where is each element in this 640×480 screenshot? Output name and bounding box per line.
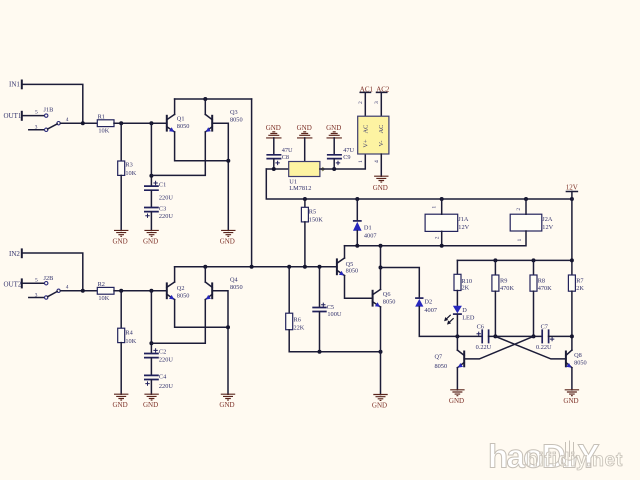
wire Q8 base cross-couple to C6 node bbox=[495, 336, 566, 359]
svg-text:Q6: Q6 bbox=[383, 291, 391, 298]
relay J2A bbox=[510, 208, 553, 242]
junction D1 bottom bbox=[355, 244, 359, 248]
diode D2 bbox=[415, 298, 437, 314]
svg-text:8050: 8050 bbox=[435, 363, 448, 370]
svg-text:C4: C4 bbox=[159, 374, 167, 381]
svg-text:J1B: J1B bbox=[44, 106, 54, 113]
capacitor C9 bbox=[327, 147, 355, 165]
wire OUT1 to J1B pin 5 bbox=[22, 115, 45, 117]
junction 12V on rail bbox=[570, 197, 574, 201]
wire OUT2 to J2B pin 5 bbox=[22, 282, 45, 284]
transistor Q7 bbox=[435, 350, 465, 370]
ground below R4 bbox=[113, 394, 129, 409]
wire branch to D2 bbox=[381, 268, 420, 298]
svg-text:C5: C5 bbox=[327, 304, 334, 311]
wire R9 to C6 line bbox=[494, 291, 496, 336]
transistor Q8 bbox=[566, 350, 587, 368]
svg-text:22K: 22K bbox=[294, 324, 305, 331]
diode D1 bbox=[353, 221, 377, 240]
svg-text:Q2: Q2 bbox=[177, 285, 185, 292]
svg-text:R5: R5 bbox=[309, 209, 316, 216]
wire Q7 collector bbox=[456, 336, 458, 350]
resistor R4 bbox=[118, 328, 137, 345]
svg-text:J2B: J2B bbox=[44, 275, 54, 282]
wire J1B pin 3 stub bbox=[29, 129, 45, 131]
junction Q4 emitter tap bbox=[149, 341, 153, 345]
wire Q1 emitter to node B bbox=[175, 132, 229, 161]
wire C7 to Q8 node bbox=[549, 335, 572, 337]
junction Q8 collector bbox=[570, 334, 574, 338]
svg-text:100U: 100U bbox=[327, 311, 341, 318]
svg-text:C3: C3 bbox=[159, 206, 166, 213]
junction node D bbox=[226, 325, 230, 329]
transistor Q4 bbox=[205, 277, 242, 300]
wire Q7 base cross-couple to C7 node bbox=[464, 336, 533, 359]
svg-text:GND: GND bbox=[219, 401, 234, 409]
capacitor C8 bbox=[266, 147, 293, 165]
svg-text:Q8: Q8 bbox=[574, 352, 582, 359]
junction R8 bottom bbox=[532, 334, 536, 338]
svg-text:2K: 2K bbox=[462, 284, 470, 291]
svg-text:J2A: J2A bbox=[542, 216, 553, 223]
transistor Q3 bbox=[205, 109, 242, 132]
wire J1A pin 1 bbox=[441, 199, 443, 214]
svg-text:C9: C9 bbox=[343, 154, 350, 161]
svg-text:4007: 4007 bbox=[364, 232, 377, 239]
wire R7 to Q8 collector bbox=[571, 291, 573, 350]
svg-text:LED: LED bbox=[462, 314, 475, 321]
svg-text:5: 5 bbox=[35, 109, 38, 115]
svg-text:150K: 150K bbox=[309, 216, 323, 223]
port AC1 bbox=[360, 85, 374, 93]
wire Q6 emitter down bbox=[380, 307, 382, 395]
capacitor C7 bbox=[536, 323, 554, 351]
svg-text:4: 4 bbox=[374, 160, 380, 163]
ground below C4 bbox=[143, 394, 159, 409]
wire LED to Q7 collector bbox=[456, 314, 458, 336]
svg-text:10K: 10K bbox=[98, 295, 109, 302]
junction R8 top bbox=[532, 258, 536, 262]
wire bridge pin 4 to ground bbox=[380, 154, 382, 176]
svg-text:220U: 220U bbox=[159, 383, 173, 390]
wire Q4 collector bbox=[204, 267, 206, 282]
svg-text:220U: 220U bbox=[159, 195, 173, 202]
wire J1A pin 2 bbox=[441, 231, 443, 245]
svg-text:10K: 10K bbox=[125, 170, 136, 177]
wire R5 to lower rail bbox=[304, 222, 306, 267]
resistor R8 bbox=[530, 275, 552, 292]
transistor Q5 bbox=[337, 258, 358, 276]
svg-text:12V: 12V bbox=[542, 224, 553, 231]
wire J2A pin 1 to Q5 collector line bbox=[345, 231, 527, 246]
svg-text:AC: AC bbox=[362, 125, 369, 134]
wire R6 bottom to emitter line bbox=[289, 330, 380, 352]
wire Q6 collector up bbox=[380, 246, 382, 290]
inverted ground above U1 bbox=[297, 124, 313, 138]
wire C5 bottom to emitter line bbox=[319, 312, 321, 352]
wire Q5 emitter to Q6 base bbox=[345, 276, 373, 299]
svg-text:AC: AC bbox=[378, 125, 385, 134]
ground below R3 bbox=[113, 230, 129, 245]
wire 12V to rail and R7 bbox=[571, 192, 573, 276]
svg-text:2K: 2K bbox=[576, 285, 584, 292]
junction R9 top bbox=[493, 258, 497, 262]
svg-text:5: 5 bbox=[35, 278, 38, 284]
svg-text:Q3: Q3 bbox=[230, 109, 238, 116]
regulator U1 LM7812 bbox=[289, 162, 320, 193]
svg-text:R1: R1 bbox=[98, 114, 105, 121]
port OUT1 bbox=[4, 112, 22, 120]
svg-text:GND: GND bbox=[326, 124, 341, 132]
svg-text:J1A: J1A bbox=[458, 216, 469, 223]
svg-text:GND: GND bbox=[113, 401, 128, 409]
svg-text:V+: V+ bbox=[362, 139, 369, 148]
ground below C3 bbox=[143, 230, 159, 245]
svg-text:C2: C2 bbox=[159, 349, 166, 356]
inverted ground above C8 bbox=[266, 124, 282, 138]
capacitor C3 bbox=[144, 206, 173, 220]
wire R4 to ground bbox=[120, 343, 122, 395]
svg-text:12V: 12V bbox=[458, 224, 469, 231]
wire R8 to C7 line bbox=[533, 291, 535, 336]
wire R10 to LED bbox=[456, 291, 458, 306]
junction R9 bottom bbox=[493, 334, 497, 338]
wire C2 to C4 bbox=[150, 358, 152, 375]
junction LED bottom bbox=[455, 334, 459, 338]
svg-text:2: 2 bbox=[516, 208, 522, 211]
svg-text:12V: 12V bbox=[566, 184, 578, 192]
svg-text:Q4: Q4 bbox=[230, 277, 239, 284]
svg-text:V-: V- bbox=[378, 140, 385, 146]
port IN1 bbox=[9, 81, 22, 89]
wire R5 top lead bbox=[304, 199, 306, 207]
svg-text:3: 3 bbox=[374, 101, 380, 104]
svg-text:8050: 8050 bbox=[230, 117, 243, 124]
wire J2A pin 2 bbox=[525, 199, 527, 214]
svg-text:4: 4 bbox=[66, 285, 69, 291]
wire C9 lower lead bbox=[333, 159, 335, 169]
wire J2B pin 4 to R2 bbox=[60, 290, 97, 292]
wire V+ rail left leg bbox=[266, 169, 572, 199]
rail to R10 R9 R8 R7 bbox=[457, 259, 572, 261]
junction C9 bbox=[332, 167, 336, 171]
svg-text:D1: D1 bbox=[364, 225, 372, 232]
svg-text:R9: R9 bbox=[500, 278, 507, 285]
wire R3 to ground bbox=[120, 175, 122, 230]
transistor Q6 bbox=[373, 289, 396, 307]
port IN2 bbox=[9, 249, 22, 257]
wire C6 to C7 bbox=[489, 335, 543, 337]
junction J2A on rail bbox=[524, 197, 528, 201]
junction R4 tap bbox=[119, 289, 123, 293]
capacitor C6 bbox=[476, 323, 492, 351]
node A junction bbox=[81, 121, 85, 125]
wire IN1 to node A bbox=[22, 84, 83, 123]
watermark haoDIY logo bbox=[488, 438, 623, 475]
junction D1 on rail bbox=[355, 197, 359, 201]
svg-text:1: 1 bbox=[358, 160, 364, 163]
wire R1 to Q1 base bbox=[114, 122, 167, 124]
wire C8 to U1 input bbox=[266, 159, 288, 169]
svg-text:2: 2 bbox=[435, 236, 441, 239]
svg-text:8050: 8050 bbox=[230, 284, 243, 291]
svg-text:LM7812: LM7812 bbox=[289, 185, 311, 192]
junction R7 top bbox=[570, 258, 574, 262]
svg-text:2: 2 bbox=[358, 101, 364, 104]
junction Q6 collector line bbox=[379, 244, 383, 248]
wire Q1 collector bbox=[174, 99, 176, 114]
wire Q4 base to ground bbox=[212, 291, 228, 394]
wire R6 top lead bbox=[288, 267, 290, 313]
ground below Q8 bbox=[563, 390, 579, 405]
svg-text:3: 3 bbox=[35, 124, 38, 130]
svg-text:GND: GND bbox=[373, 184, 388, 192]
svg-text:Q7: Q7 bbox=[435, 353, 443, 360]
svg-text:R3: R3 bbox=[125, 161, 132, 168]
wire node to C2 bbox=[150, 291, 152, 353]
svg-text:Q1: Q1 bbox=[177, 116, 185, 123]
wire R3 top lead bbox=[120, 123, 122, 161]
wire Q3 base to ground bbox=[212, 123, 228, 230]
svg-text:GND: GND bbox=[220, 237, 235, 245]
svg-text:GND: GND bbox=[266, 124, 281, 132]
transistor Q2 bbox=[167, 282, 190, 300]
junction Q3 emitter tap bbox=[149, 174, 153, 178]
wire Q2 emitter to node D bbox=[175, 300, 228, 328]
junction C5 bottom bbox=[318, 350, 322, 354]
capacitor C4 bbox=[144, 374, 173, 391]
ground below node B bbox=[220, 230, 236, 245]
svg-text:R6: R6 bbox=[294, 316, 301, 323]
svg-text:D: D bbox=[462, 307, 467, 314]
wire AC2 to bridge pin 3 bbox=[380, 92, 382, 116]
svg-text:GND: GND bbox=[372, 402, 387, 410]
junction J1A on rail bbox=[440, 197, 444, 201]
resistor R7 bbox=[568, 275, 584, 292]
svg-text:GND: GND bbox=[297, 124, 312, 132]
junction C8 bbox=[272, 167, 276, 171]
junction Q3 collector bbox=[203, 97, 207, 101]
svg-text:1: 1 bbox=[517, 239, 523, 242]
wire Q3 emitter to C1 node bbox=[151, 132, 205, 175]
svg-text:470K: 470K bbox=[500, 285, 514, 292]
svg-text:8050: 8050 bbox=[177, 123, 190, 130]
wire lower collector rail to Q5 base bbox=[175, 266, 337, 268]
wire node to C1 bbox=[150, 123, 152, 185]
junction node B bbox=[226, 159, 230, 163]
wire R10 top lead bbox=[456, 260, 458, 274]
svg-text:C6: C6 bbox=[477, 323, 484, 330]
svg-text:8050: 8050 bbox=[574, 359, 587, 366]
svg-text:R2: R2 bbox=[98, 281, 105, 288]
pin marker U1 output bbox=[321, 167, 325, 171]
ground below node D bbox=[219, 394, 235, 409]
wire C5 top lead bbox=[319, 267, 321, 307]
svg-text:0.22U: 0.22U bbox=[536, 344, 552, 351]
wire R2 to Q2 base bbox=[114, 290, 167, 292]
resistor R1 bbox=[97, 114, 114, 135]
svg-text:C7: C7 bbox=[541, 323, 548, 330]
resistor R6 bbox=[286, 313, 305, 331]
ground below Q6 bbox=[372, 395, 388, 410]
wire C4 to ground bbox=[150, 380, 152, 394]
ground below Q7 bbox=[449, 390, 465, 405]
capacitor C2 bbox=[144, 348, 173, 363]
wire Q5 collector line bbox=[344, 246, 346, 258]
wire gnd to C9 bbox=[333, 138, 335, 155]
node C junction bbox=[81, 289, 85, 293]
svg-text:1: 1 bbox=[431, 206, 437, 209]
svg-text:R7: R7 bbox=[576, 278, 583, 285]
svg-text:C1: C1 bbox=[159, 181, 166, 188]
capacitor C5 bbox=[312, 303, 342, 319]
svg-text:OUT1: OUT1 bbox=[4, 112, 22, 120]
junction Q4 collector bbox=[203, 265, 207, 269]
inverted ground above C9 bbox=[326, 124, 342, 138]
switch J2B bbox=[35, 275, 69, 299]
bridge rectifier bbox=[358, 101, 389, 163]
junction R5 on rail bbox=[303, 197, 307, 201]
wire J2B pin 3 stub bbox=[29, 297, 45, 299]
svg-text:8050: 8050 bbox=[346, 268, 359, 275]
resistor R5 bbox=[301, 207, 323, 223]
svg-text:GND: GND bbox=[113, 237, 128, 245]
svg-text:3: 3 bbox=[35, 292, 38, 298]
wire C3 to ground bbox=[150, 212, 152, 230]
svg-text:470K: 470K bbox=[538, 285, 552, 292]
wire D1 top lead bbox=[356, 199, 358, 221]
junction R5 bottom bbox=[303, 265, 307, 269]
svg-text:D2: D2 bbox=[424, 299, 432, 306]
ground below bridge bbox=[373, 176, 389, 192]
svg-text:8050: 8050 bbox=[177, 293, 190, 300]
wire Q8 emitter to ground bbox=[571, 368, 573, 390]
junction C1 tap bbox=[149, 121, 153, 125]
svg-text:C8: C8 bbox=[282, 154, 289, 161]
junction C5 tap bbox=[318, 265, 322, 269]
resistor R10 bbox=[454, 274, 472, 291]
resistor R3 bbox=[118, 161, 137, 177]
svg-text:GND: GND bbox=[143, 237, 158, 245]
svg-text:hifidiy.net: hifidiy.net bbox=[526, 450, 623, 471]
wire AC1 to bridge pin 2 bbox=[364, 92, 366, 116]
wire J1B pin 4 to R1 bbox=[60, 122, 97, 124]
resistor R2 bbox=[97, 281, 114, 302]
resistor R9 bbox=[492, 275, 515, 292]
port OUT2 bbox=[4, 279, 22, 288]
wire D1 to Q5 collector line bbox=[356, 231, 358, 246]
junction upper rail drop bbox=[250, 265, 254, 269]
svg-text:220U: 220U bbox=[159, 213, 173, 220]
junction C2 tap bbox=[149, 289, 153, 293]
svg-text:10K: 10K bbox=[98, 127, 109, 134]
svg-text:4: 4 bbox=[66, 117, 69, 123]
svg-text:GND: GND bbox=[563, 397, 578, 405]
wire U1 output to bridge V+ bbox=[320, 154, 365, 169]
junction R6 tap bbox=[287, 265, 291, 269]
wire R4 top lead bbox=[120, 291, 122, 328]
wire R8 top lead bbox=[533, 260, 535, 275]
svg-text:GND: GND bbox=[449, 397, 464, 405]
wire gnd to C8 bbox=[273, 138, 275, 155]
svg-text:GND: GND bbox=[143, 401, 158, 409]
wire Q2 collector bbox=[174, 267, 176, 282]
wire R9 top lead bbox=[494, 260, 496, 275]
switch J1B bbox=[35, 106, 69, 131]
wire collector rail Q1-Q3 bbox=[175, 98, 252, 100]
wire Q4 emitter to C2 node bbox=[151, 300, 205, 344]
wire IN2 to node C bbox=[22, 253, 83, 291]
svg-text:220U: 220U bbox=[159, 357, 173, 364]
wire gnd to U1 bbox=[304, 138, 306, 162]
svg-text:R4: R4 bbox=[125, 330, 133, 337]
LED D bbox=[444, 306, 475, 325]
capacitor C1 bbox=[144, 181, 173, 202]
wire D2 to C6 line bbox=[419, 307, 482, 337]
junction Q6 collector branch bbox=[379, 266, 383, 270]
svg-text:IN2: IN2 bbox=[9, 250, 20, 258]
svg-text:10K: 10K bbox=[125, 338, 136, 345]
junction J1A pin 2 bbox=[440, 244, 444, 248]
svg-text:OUT2: OUT2 bbox=[4, 280, 22, 288]
junction Q6 emitter bbox=[379, 350, 383, 354]
wire Q7 emitter to ground bbox=[456, 368, 458, 390]
wire rail down to lower rail bbox=[251, 99, 253, 267]
wire Q3 collector bbox=[204, 99, 206, 114]
svg-text:IN1: IN1 bbox=[9, 81, 20, 89]
svg-text:R8: R8 bbox=[538, 278, 545, 285]
junction R3 tap bbox=[119, 121, 123, 125]
relay J1A bbox=[425, 206, 469, 240]
power port 12V bbox=[566, 184, 578, 192]
svg-text:0.22U: 0.22U bbox=[476, 344, 492, 351]
wire C1 to C3 bbox=[150, 191, 152, 207]
transistor Q1 bbox=[167, 114, 190, 132]
port AC2 bbox=[376, 85, 390, 93]
svg-text:8050: 8050 bbox=[383, 299, 396, 306]
svg-text:4007: 4007 bbox=[424, 307, 437, 314]
